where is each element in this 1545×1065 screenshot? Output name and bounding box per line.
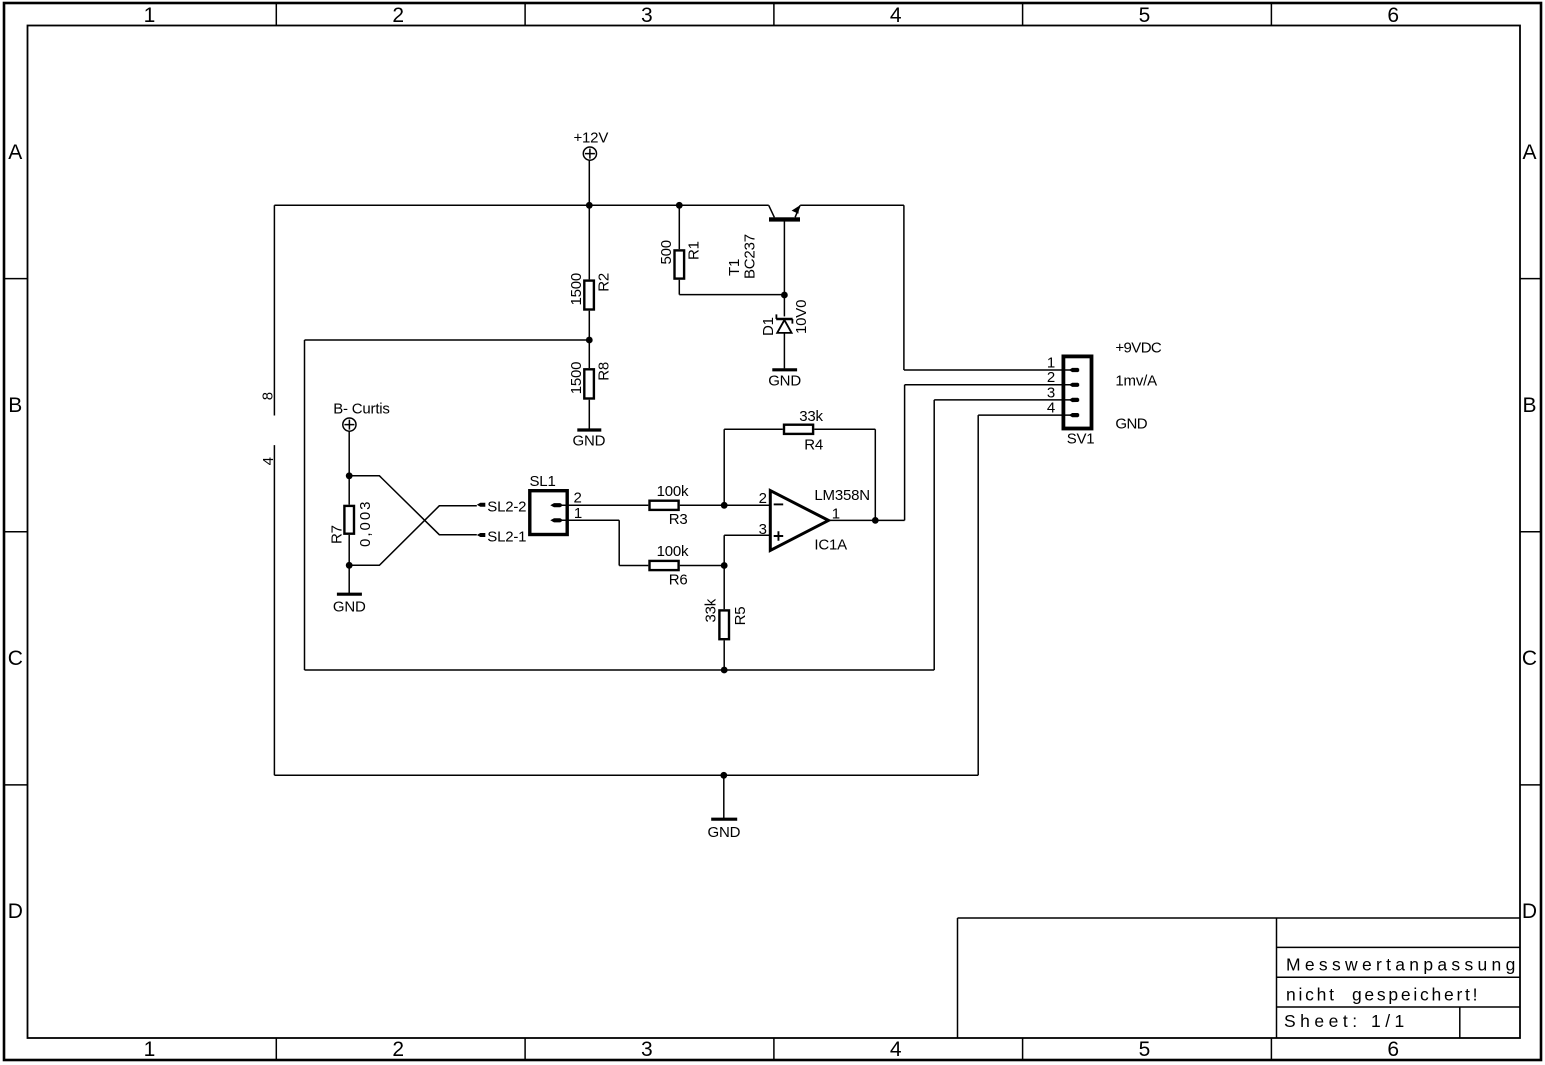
svg-text:500: 500 [658, 240, 675, 264]
frame column labels top [144, 4, 1399, 27]
svg-text:SL1: SL1 [530, 473, 556, 490]
frame row labels left [8, 141, 23, 923]
wire feedback left vertical [724, 429, 783, 505]
wire SL1 pin1 to R6 [561, 520, 648, 565]
frame row ticks right [1520, 279, 1540, 785]
wire feedback right vertical [814, 429, 875, 520]
resistor R4 [784, 425, 813, 434]
svg-text:SL2-2: SL2-2 [487, 498, 526, 515]
resistor R5 [719, 610, 729, 639]
wire emitter rail to SV1 pin1 [800, 205, 1070, 370]
svg-text:LM358N: LM358N [814, 487, 870, 504]
node GND rail junction [720, 772, 727, 779]
frame column ticks bottom [276, 1038, 1271, 1059]
resistor R6 [650, 561, 679, 570]
supply B- Curtis symbol [343, 418, 356, 431]
svg-text:3: 3 [759, 521, 767, 538]
svg-text:100k: 100k [657, 483, 689, 500]
svg-text:4: 4 [1047, 399, 1055, 416]
svg-text:2: 2 [392, 1038, 404, 1061]
node non-inverting input junction [721, 562, 728, 569]
svg-text:B: B [1522, 394, 1536, 417]
ground bottom center [711, 818, 737, 821]
wire cross B (R7 bottom to SL2-2) [349, 506, 477, 566]
svg-text:2: 2 [574, 490, 582, 507]
svg-text:GND: GND [573, 432, 606, 449]
svg-text:5: 5 [1139, 1038, 1151, 1061]
resistor R8 [584, 369, 594, 398]
supply +12V symbol [583, 147, 596, 160]
node +12V rail / R2 junction [586, 202, 593, 209]
svg-text:GND: GND [333, 598, 366, 615]
svg-text:A: A [8, 141, 22, 164]
svg-text:3: 3 [641, 1038, 653, 1061]
wire SV1 pin3 [934, 399, 1070, 401]
node T1 base / D1 junction [781, 292, 788, 299]
svg-text:R4: R4 [804, 436, 823, 453]
svg-text:Sheet: 1/1: Sheet: 1/1 [1284, 1011, 1409, 1031]
frame column labels bottom [144, 1038, 1399, 1061]
svg-text:R8: R8 [596, 362, 613, 381]
svg-text:R7: R7 [329, 525, 346, 544]
frame column ticks top [276, 4, 1271, 26]
svg-text:D1: D1 [760, 317, 777, 336]
wire D1 anode to GND [783, 333, 785, 368]
wire inner loop right up [933, 400, 935, 670]
svg-text:10V0: 10V0 [793, 300, 810, 334]
svg-text:1: 1 [574, 505, 582, 522]
svg-text:nicht gespeichert!: nicht gespeichert! [1286, 985, 1480, 1005]
svg-text:6: 6 [1387, 4, 1399, 27]
svg-text:R1: R1 [686, 241, 703, 260]
node inverting input junction [721, 502, 728, 509]
svg-text:100k: 100k [657, 543, 689, 560]
node R7 top junction [346, 472, 353, 479]
svg-text:R6: R6 [669, 572, 688, 589]
wire top rail [274, 204, 768, 206]
wire junction to opamp in+ [724, 535, 769, 565]
wire SV1 pin4 vertical [977, 415, 979, 775]
svg-text:GND: GND [1115, 416, 1147, 433]
svg-text:1mv/A: 1mv/A [1115, 373, 1157, 390]
svg-text:5: 5 [1139, 4, 1151, 27]
wire R5 bottom [723, 640, 725, 670]
svg-text:1: 1 [144, 4, 156, 27]
svg-text:6: 6 [1387, 1038, 1399, 1061]
svg-text:Messwertanpassung: Messwertanpassung [1286, 955, 1520, 975]
svg-text:33k: 33k [703, 598, 720, 622]
wire R3 to opamp in- [680, 504, 770, 506]
wire SV1 pin4 [978, 414, 1070, 416]
ground below R8 [577, 428, 601, 431]
resistor R3 [650, 501, 679, 510]
frame row labels right [1522, 141, 1537, 923]
wire R1 top [678, 205, 680, 249]
wire R5 top [723, 566, 725, 610]
svg-text:D: D [8, 900, 23, 923]
svg-text:1: 1 [832, 505, 840, 522]
wire net 8 stub [273, 205, 275, 415]
wire R1 bottom [679, 280, 784, 295]
svg-text:1500: 1500 [568, 362, 585, 395]
title block frame [958, 918, 1521, 1038]
svg-text:3: 3 [641, 4, 653, 27]
svg-text:B: B [8, 394, 22, 417]
svg-text:R2: R2 [596, 273, 613, 292]
wire net 4 / GND left vertical [273, 445, 275, 775]
wire cross A (R7 top to SL2-1) [349, 476, 477, 535]
svg-text:GND: GND [768, 372, 801, 389]
node R5 bottom junction [721, 667, 728, 674]
svg-text:4: 4 [890, 1038, 902, 1061]
svg-text:D: D [1522, 900, 1537, 923]
wire GND bottom rail [274, 774, 978, 776]
svg-text:33k: 33k [799, 408, 823, 425]
svg-text:BC237: BC237 [741, 234, 758, 279]
svg-text:SV1: SV1 [1067, 430, 1095, 447]
resistor R1 [675, 250, 685, 278]
svg-text:+12V: +12V [573, 129, 608, 146]
wire inner loop bottom [305, 669, 935, 671]
wire SL1 pin2 to R3 [561, 504, 648, 506]
svg-text:1: 1 [144, 1038, 156, 1061]
svg-text:B- Curtis: B- Curtis [333, 400, 390, 417]
node R7 bottom junction [346, 562, 353, 569]
ground below D1 [772, 368, 797, 371]
svg-text:2: 2 [759, 490, 767, 507]
resistor R2 [584, 281, 594, 310]
frame row ticks left [4, 279, 28, 785]
svg-text:4: 4 [260, 457, 277, 465]
svg-text:0,003: 0,003 [357, 499, 374, 547]
wire +12V stub [588, 160, 590, 205]
wire R2 top [588, 205, 590, 279]
wire R7 bottom to GND [348, 535, 350, 593]
node +12V rail / R1 junction [676, 202, 683, 209]
svg-text:2: 2 [392, 4, 404, 27]
net tag SL2-1 [477, 533, 486, 537]
net tag SL2-2 [477, 503, 486, 507]
wire R6 to junction [680, 565, 724, 567]
node R2/R8 divider junction [586, 337, 593, 344]
node op-amp output junction [872, 517, 879, 524]
svg-text:C: C [8, 647, 23, 670]
connector SL1 [530, 491, 567, 535]
svg-text:C: C [1522, 647, 1537, 670]
connector SV1 [1063, 356, 1091, 428]
wire GND stub bottom [723, 775, 725, 819]
svg-text:4: 4 [890, 4, 902, 27]
resistor R7 [344, 506, 354, 534]
svg-text:IC1A: IC1A [814, 536, 847, 553]
diode D1 zener [776, 314, 792, 333]
wire B- stub to R7 [348, 431, 350, 504]
ground below R7 [337, 593, 362, 596]
wire T1 base lead to D1 [783, 221, 785, 316]
svg-text:1500: 1500 [568, 273, 585, 306]
transistor T1 [769, 205, 800, 221]
wire mid rail y340 [305, 339, 590, 341]
svg-text:+9VDC: +9VDC [1115, 340, 1162, 357]
wire R2 bottom to R8 top [588, 311, 590, 368]
svg-text:R3: R3 [669, 511, 688, 528]
svg-text:A: A [1522, 141, 1536, 164]
svg-text:GND: GND [708, 824, 741, 841]
svg-text:SL2-1: SL2-1 [487, 529, 526, 546]
op-amp IC1A [770, 491, 828, 551]
wire R8 bottom to GND [588, 400, 590, 429]
wire inner loop left [304, 340, 306, 670]
svg-text:R5: R5 [732, 607, 749, 626]
wire opamp output [830, 385, 1070, 521]
svg-text:8: 8 [260, 392, 277, 400]
